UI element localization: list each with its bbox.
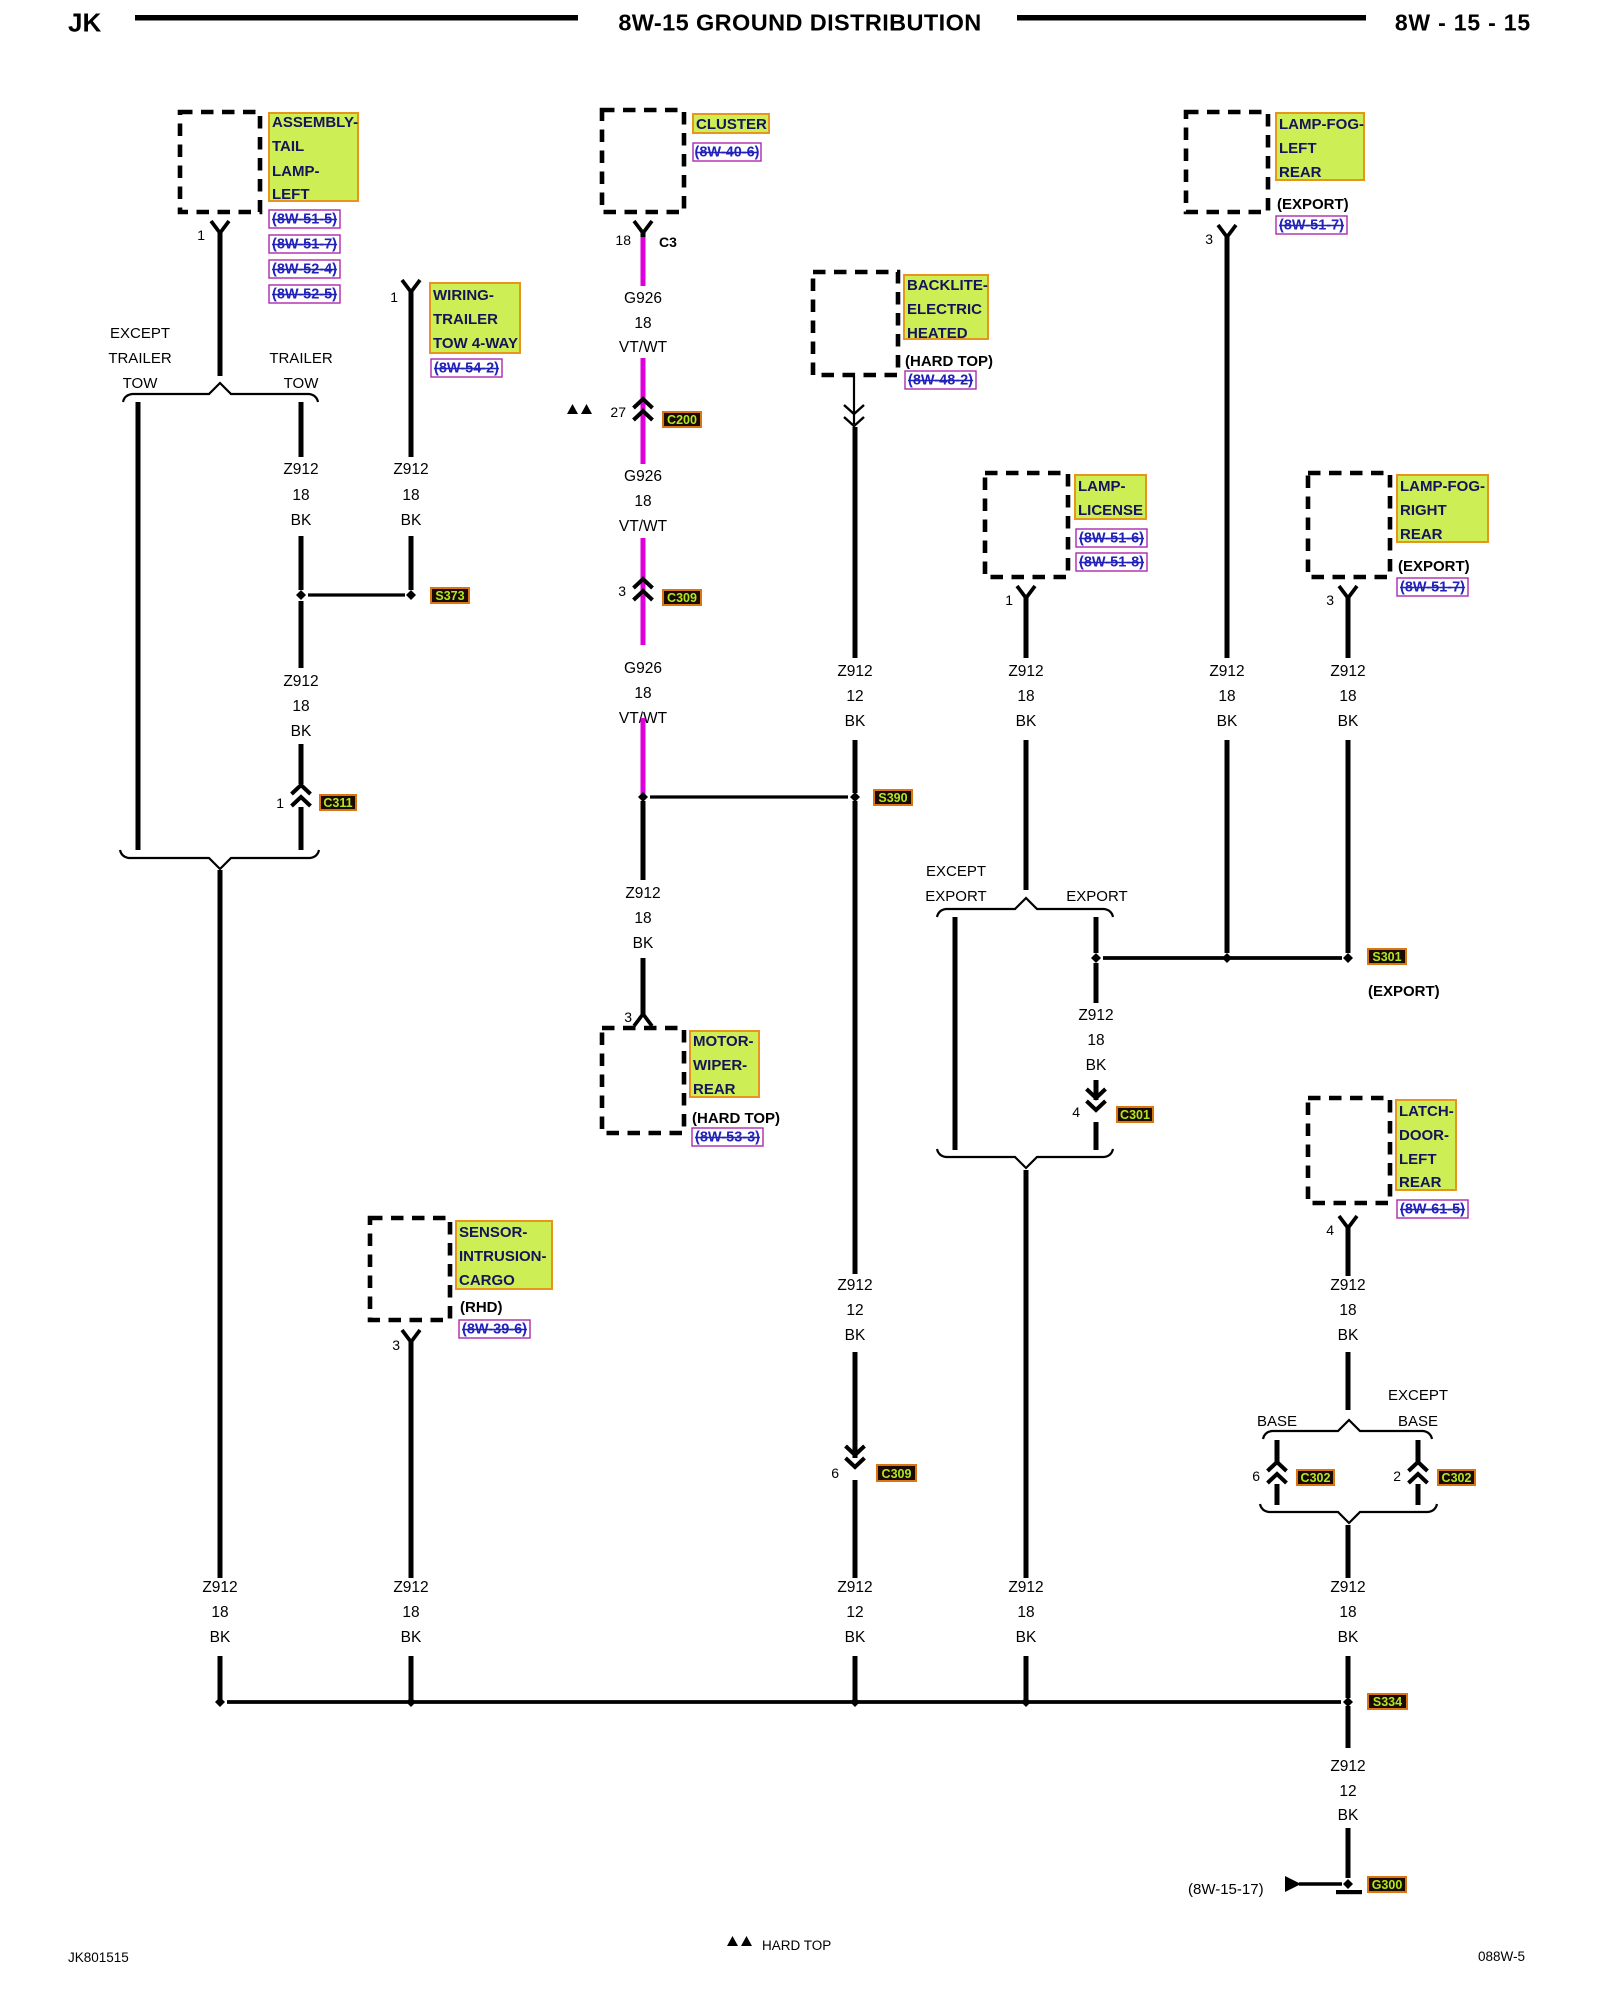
svg-text:BASE: BASE [1257,1413,1297,1430]
svg-text:18: 18 [211,1604,228,1621]
svg-text:C302: C302 [1442,1471,1472,1485]
svg-text:3: 3 [618,583,626,599]
svg-text:Z912: Z912 [837,1579,872,1596]
svg-text:CARGO: CARGO [459,1272,515,1289]
svg-text:3: 3 [1326,592,1334,608]
svg-text:S390: S390 [878,791,907,805]
note RHD sensor [460,1299,503,1316]
brace split trailer tow [123,383,318,402]
note HARD TOP wiper [692,1110,780,1127]
wire into S334 backlite [853,1656,858,1700]
wire to C311 [299,744,304,784]
svg-text:18: 18 [634,910,651,927]
svg-text:1: 1 [390,289,398,305]
wire label Z912 12 BK ground [1330,1758,1365,1824]
header rule left [135,15,578,21]
svg-text:BK: BK [1016,1629,1037,1646]
brace merge export [937,1149,1113,1168]
wire label Z912 18 BK license bottom [1008,1579,1043,1646]
svg-text:TAIL: TAIL [272,138,304,155]
svg-text:18: 18 [634,685,651,702]
wire latch down [1346,1229,1351,1276]
wire tow 4-way to S373 [409,536,414,590]
wire label Z912 12 BK bottom [837,1579,872,1646]
svg-text:Z912: Z912 [625,885,660,902]
wire G926 segment 6 [641,718,646,795]
svg-text:BK: BK [845,1327,866,1344]
svg-text:(RHD): (RHD) [460,1299,503,1316]
label EXPORT [1066,888,1127,905]
svg-text:3: 3 [392,1337,400,1353]
ground label G300 [1368,1877,1406,1892]
wire label G926 18 VT/WT third [619,660,668,727]
svg-text:BK: BK [401,512,422,529]
component box CLUSTER [602,110,684,212]
svg-text:LAMP-FOG-: LAMP-FOG- [1279,116,1364,133]
svg-text:BK: BK [1086,1057,1107,1074]
svg-text:G926: G926 [624,660,662,677]
wire trailer-tow to S373 [299,536,304,590]
header page number 8W - 15 - 15 [1395,10,1531,36]
component box LATCH-DOOR-LEFT REAR [1308,1098,1390,1203]
svg-text:12: 12 [1339,1783,1356,1800]
svg-text:BK: BK [1338,1807,1359,1824]
label BASE [1257,1413,1297,1430]
svg-text:TOW: TOW [284,375,320,392]
svg-text:BK: BK [210,1629,231,1646]
splice label S301 [1368,949,1406,964]
wire label Z912 18 BK tow 4-way [393,461,428,529]
connector label C200 [663,412,701,427]
svg-text:6: 6 [831,1465,839,1481]
connector C309 bottom chevrons [846,1446,865,1467]
label BACKLITE-ELECTRIC HEATED [904,275,988,342]
wire below C309 bottom [853,1480,858,1578]
label EXCEPT TRAILER TOW [108,325,172,392]
wire label Z912 18 BK below S373 [283,673,318,740]
svg-text:C311: C311 [323,796,352,810]
svg-text:Z912: Z912 [283,461,318,478]
svg-text:BK: BK [845,1629,866,1646]
reference link 8W-51-5 [269,210,340,228]
wire label Z912 18 BK fog left [1209,663,1244,730]
splice label S390 [874,790,912,805]
component box BACKLITE-ELECTRIC HEATED [813,272,898,375]
wire into S334 latch [1346,1656,1351,1698]
connector label C311 [320,795,356,810]
svg-text:BK: BK [291,723,312,740]
component box LAMP-FOG-LEFT REAR [1186,112,1268,212]
brace split export [937,898,1113,917]
svg-text:Z912: Z912 [1330,1277,1365,1294]
svg-text:VT/WT: VT/WT [619,518,668,535]
reference link 8W-51-8 [1076,553,1147,571]
connector label C309 bottom [877,1465,916,1481]
wire to C309 bottom [853,1352,858,1458]
wire label Z912 18 BK bottom left [202,1579,237,1646]
svg-text:LAMP-FOG-: LAMP-FOG- [1400,478,1485,495]
pin 2 C302 right [1393,1468,1401,1484]
svg-text:INTRUSION-: INTRUSION- [459,1248,547,1265]
svg-text:LEFT: LEFT [1279,140,1317,157]
component box SENSOR-INTRUSION-CARGO [370,1218,450,1320]
svg-text:ELECTRIC: ELECTRIC [907,301,982,318]
pin 1 tail lamp [197,227,205,243]
wire license merged down [1024,1170,1029,1578]
svg-text:BK: BK [1338,1327,1359,1344]
ground G300 bar [1336,1890,1362,1894]
svg-text:18: 18 [402,1604,419,1621]
wire below S390 backlite [853,801,858,1274]
reference link 8W-51-7 [269,235,340,253]
wire latch merged down [1346,1525,1351,1578]
svg-text:Z912: Z912 [1330,1579,1365,1596]
node S334 diamond A [215,1697,225,1707]
svg-text:LEFT: LEFT [1399,1151,1437,1168]
component box LAMP-FOG-RIGHT REAR [1308,473,1390,577]
wire tail lamp down [218,234,223,376]
svg-text:SENSOR-: SENSOR- [459,1224,527,1241]
svg-text:JK801515: JK801515 [68,1950,129,1965]
pin 3 fog left [1205,231,1213,247]
reference link 8W-54-2 [431,359,502,377]
svg-text:18: 18 [615,232,631,248]
label MOTOR-WIPER-REAR [690,1031,759,1098]
svg-text:(EXPORT): (EXPORT) [1368,983,1440,1000]
wire license to brace [1024,740,1029,890]
note EXPORT fog left [1277,196,1349,213]
svg-text:8W - 15 - 15: 8W - 15 - 15 [1395,10,1531,36]
svg-text:TRAILER: TRAILER [269,350,333,367]
wire S373 tie [308,593,405,596]
wire sensor down [409,1343,414,1578]
node S390 right diamond [850,792,860,802]
svg-text:RIGHT: RIGHT [1400,502,1447,519]
svg-text:C302: C302 [1301,1471,1331,1485]
pin 3 sensor [392,1337,400,1353]
pin 1 C311 [276,795,284,811]
reference link 8W-51-7 fog left [1276,216,1347,234]
svg-text:8W-15 GROUND DISTRIBUTION: 8W-15 GROUND DISTRIBUTION [618,10,981,36]
svg-text:18: 18 [1339,1302,1356,1319]
footer drawing number 088W-5 [1478,1949,1525,1964]
wire fog left to S301 [1225,740,1230,953]
wire fog right to S301 [1346,740,1351,953]
svg-text:LEFT: LEFT [272,186,310,203]
footer sheet number JK801515 [68,1950,129,1965]
note EXPORT fog right [1398,558,1470,575]
header title 8W-15 GROUND DISTRIBUTION [618,10,981,36]
label CLUSTER [693,114,769,133]
node S301 left diamond [1091,953,1101,963]
reference link 8W-53-3 [692,1128,763,1146]
footnote key triangles [727,1936,752,1946]
wire backlite down [853,427,858,658]
svg-text:EXCEPT: EXCEPT [110,325,170,342]
pin 3 C309 [618,583,626,599]
svg-text:C301: C301 [1120,1108,1150,1122]
wire fog right down [1346,599,1351,658]
reference link 8W-52-5 [269,285,340,303]
node S334 diamond B [406,1697,416,1707]
component box ASSEMBLY-TAIL LAMP-LEFT [180,112,260,212]
node S373 right diamond [406,590,416,600]
svg-text:TOW 4-WAY: TOW 4-WAY [433,335,518,352]
wire S301 tie [1103,956,1342,960]
svg-text:LAMP-: LAMP- [272,163,320,180]
wire except-base branch upper [1416,1440,1421,1462]
svg-text:Z912: Z912 [202,1579,237,1596]
svg-text:C200: C200 [667,413,697,427]
pin 3 wiper motor [624,1009,632,1025]
connector C200 chevrons [634,399,653,420]
svg-text:12: 12 [846,1604,863,1621]
label TRAILER TOW [269,350,333,392]
splice label S373 [431,588,469,603]
svg-text:HEATED: HEATED [907,325,968,342]
wire except-trailer-tow branch [136,402,141,850]
connector label C301 [1117,1107,1153,1122]
svg-text:LICENSE: LICENSE [1078,502,1143,519]
reference link 8W-48-2 [905,371,976,389]
svg-text:BK: BK [401,1629,422,1646]
label ASSEMBLY-TAIL LAMP-LEFT [269,113,358,203]
svg-text:Z912: Z912 [837,1277,872,1294]
node S373 left diamond [296,590,306,600]
wire base branch upper [1275,1440,1280,1462]
svg-text:Z912: Z912 [1330,1758,1365,1775]
pin 1 lamp license [1005,592,1013,608]
connector label C3 [659,234,677,250]
connector Y trailer tow 4-way [402,280,420,296]
wire G926 segment 2 [641,358,646,421]
svg-text:C309: C309 [882,1467,912,1481]
label LAMP-FOG-LEFT REAR [1276,113,1364,181]
svg-text:BACKLITE-: BACKLITE- [907,277,988,294]
wire label Z912 18 BK wiper [625,885,660,952]
svg-text:EXPORT: EXPORT [925,888,986,905]
svg-text:18: 18 [1339,688,1356,705]
svg-text:EXPORT: EXPORT [1066,888,1127,905]
wire below S390 junction [641,801,646,880]
svg-text:BK: BK [633,935,654,952]
svg-text:Z912: Z912 [1008,663,1043,680]
svg-text:BASE: BASE [1398,1413,1438,1430]
svg-text:VT/WT: VT/WT [619,339,668,356]
pin 4 C301 [1072,1104,1080,1120]
connector Y wiper motor [634,1010,652,1026]
node S301 mid diamond [1222,953,1232,963]
svg-text:(EXPORT): (EXPORT) [1398,558,1470,575]
connector Y tail lamp [211,221,229,237]
svg-text:088W-5: 088W-5 [1478,1949,1525,1964]
component box LAMP-LICENSE [985,473,1068,577]
svg-text:6: 6 [1252,1468,1260,1484]
svg-text:12: 12 [846,1302,863,1319]
label WIRING-TRAILER TOW 4-WAY [430,283,520,353]
svg-text:REAR: REAR [693,1081,736,1098]
connector Y fog left [1218,225,1236,241]
svg-text:Z912: Z912 [1330,663,1365,680]
wire export branch upper [1094,917,1099,953]
wire into wiper motor [641,958,646,1011]
svg-text:HARD TOP: HARD TOP [762,1938,831,1953]
svg-text:C3: C3 [659,234,677,250]
svg-text:4: 4 [1326,1222,1334,1238]
svg-text:DOOR-: DOOR- [1399,1127,1449,1144]
connector C301 chevrons [1087,1089,1106,1110]
svg-text:1: 1 [276,795,284,811]
pin 1 trailer tow 4-way [390,289,398,305]
wire G926 segment 5 [641,578,646,645]
svg-text:Z912: Z912 [1209,663,1244,680]
svg-text:TRAILER: TRAILER [108,350,172,367]
svg-text:(8W-15-17): (8W-15-17) [1188,1881,1264,1898]
node S301 right diamond [1343,953,1353,963]
brace merge trailer tow [120,850,319,869]
splice label S334 [1368,1694,1407,1709]
brace merge base [1260,1504,1437,1523]
svg-text:18: 18 [402,487,419,504]
wire into S334 sensor [409,1656,414,1700]
reference link 8W-51-7 fog right [1397,578,1468,596]
header rule right [1017,15,1366,21]
svg-text:12: 12 [846,688,863,705]
svg-text:G926: G926 [624,468,662,485]
connector label C302 right [1438,1470,1475,1485]
component box MOTOR-WIPER-REAR [602,1028,684,1133]
svg-text:18: 18 [1087,1032,1104,1049]
footnote key text HARD TOP [762,1938,831,1953]
wire export below S301 [1094,963,1099,1003]
svg-text:2: 2 [1393,1468,1401,1484]
wire into S334 left [218,1656,223,1700]
wire backlite to S390 [853,740,858,793]
wire except-export branch [953,917,958,1150]
connector Y sensor [402,1330,420,1346]
svg-text:EXCEPT: EXCEPT [1388,1387,1448,1404]
svg-text:1: 1 [1005,592,1013,608]
brace split base [1263,1420,1432,1439]
wire into G300 [1346,1828,1351,1878]
wire license down [1024,599,1029,658]
pin 27 C200 [610,404,626,420]
svg-text:18: 18 [292,698,309,715]
reference link 8W-51-6 [1076,529,1147,547]
connector Y cluster [634,221,652,237]
label LATCH-DOOR-LEFT REAR [1396,1100,1456,1191]
wire label Z912 12 BK backlite [837,663,872,730]
svg-text:Z912: Z912 [283,673,318,690]
header label JK [68,8,101,38]
connector C302 left chevrons [1268,1462,1287,1483]
svg-text:EXCEPT: EXCEPT [926,863,986,880]
svg-text:BK: BK [845,713,866,730]
svg-text:JK: JK [68,8,101,38]
svg-text:CLUSTER: CLUSTER [696,116,767,133]
svg-text:BK: BK [291,512,312,529]
wire label Z912 18 BK fog right [1330,663,1365,730]
connector label C302 left [1297,1470,1334,1485]
arrow to G300 [1285,1876,1342,1892]
wire label Z912 18 BK license [1008,663,1043,730]
wire label Z912 18 BK sensor [393,1579,428,1646]
wire trailer-tow branch upper [299,402,304,457]
wire S334 bus [227,1700,1341,1704]
wire label Z912 18 BK trailer tow [283,461,318,529]
svg-text:Z912: Z912 [1008,1579,1043,1596]
svg-text:18: 18 [1339,1604,1356,1621]
svg-text:S334: S334 [1373,1695,1402,1709]
svg-text:BK: BK [1338,1629,1359,1646]
wire trailer tow 4-way down [409,293,414,457]
node G300 diamond [1343,1879,1353,1889]
connector C309 chevrons [634,579,653,600]
svg-text:27: 27 [610,404,626,420]
wire S390 tie [650,795,848,798]
svg-text:Z912: Z912 [393,1579,428,1596]
wire below S373 [299,601,304,668]
label EXCEPT EXPORT [925,863,986,905]
svg-text:(EXPORT): (EXPORT) [1277,196,1349,213]
svg-text:REAR: REAR [1399,1174,1442,1191]
wire G926 segment 3 [641,398,646,464]
reference link 8W-39-6 [459,1320,530,1338]
svg-text:REAR: REAR [1279,164,1322,181]
connector Y lamp license [1017,586,1035,602]
pin 18 cluster C3 [615,232,631,248]
wire into S334 license [1024,1656,1029,1700]
svg-text:18: 18 [292,487,309,504]
wire except-base branch lower [1416,1484,1421,1505]
svg-text:REAR: REAR [1400,526,1443,543]
svg-text:BK: BK [1016,713,1037,730]
svg-text:S301: S301 [1372,950,1401,964]
node S334 diamond D [1021,1697,1031,1707]
svg-text:18: 18 [634,315,651,332]
svg-text:LATCH-: LATCH- [1399,1103,1454,1120]
svg-text:Z912: Z912 [837,663,872,680]
wire backlite thin lead [853,373,855,424]
wire label Z912 18 BK latch [1330,1277,1365,1344]
connector C302 right chevrons [1409,1462,1428,1483]
wire merged column down [218,870,223,1578]
connector label C309 [663,590,701,605]
wire label Z912 18 BK latch bottom [1330,1579,1365,1646]
connector Y fog right [1339,586,1357,602]
svg-text:G926: G926 [624,290,662,307]
label EXCEPT BASE [1388,1387,1448,1430]
wire label Z912 18 BK export [1078,1007,1113,1074]
svg-text:ASSEMBLY-: ASSEMBLY- [272,114,358,131]
svg-text:BK: BK [1338,713,1359,730]
label LAMP-LICENSE [1075,475,1146,519]
pin 3 fog right [1326,592,1334,608]
svg-text:(HARD TOP): (HARD TOP) [692,1110,780,1127]
svg-text:3: 3 [1205,231,1213,247]
wire below C311 [299,807,304,850]
node S334 diamond E [1343,1697,1353,1707]
svg-text:(HARD TOP): (HARD TOP) [905,353,993,370]
svg-text:18: 18 [634,493,651,510]
svg-text:C309: C309 [667,591,697,605]
svg-text:3: 3 [624,1009,632,1025]
footnote triangles hard top C200 [567,404,592,414]
svg-text:S373: S373 [435,589,464,603]
pin 6 C309 bottom [831,1465,839,1481]
wire label Z912 12 BK mid [837,1277,872,1344]
svg-text:WIPER-: WIPER- [693,1057,747,1074]
